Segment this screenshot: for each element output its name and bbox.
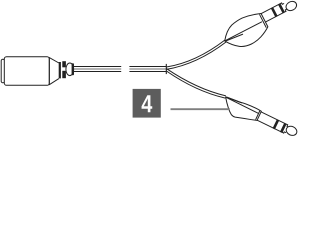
strain relief bead	[66, 63, 74, 76]
top plug boot sliver line	[226, 33, 243, 43]
cable right segment middle line	[129, 68, 166, 70]
cable left segment top line	[74, 66, 121, 68]
strain relief end bar	[72, 63, 74, 75]
bottom plug neck	[284, 125, 289, 134]
bottom plug ring band 2	[280, 123, 286, 132]
bottom branch upper line	[166, 69, 226, 96]
top plug body	[219, 9, 271, 54]
top branch lower line	[166, 42, 226, 70]
top plug end face inner line	[260, 15, 267, 28]
top plug ring band 1	[271, 7, 277, 16]
top plug crease line	[225, 22, 261, 41]
bottom plug ring band 1	[273, 120, 279, 129]
top plug ring band 2	[278, 4, 284, 13]
bottom plug boot sliver line	[226, 96, 241, 104]
female jack body right edge	[48, 57, 50, 85]
bottom plug shaft	[257, 112, 288, 133]
jack taper bottom line	[49, 79, 59, 85]
female jack body	[4, 57, 49, 86]
bottom plug crease line	[226, 97, 258, 113]
cable left segment bottom line	[74, 71, 121, 73]
top plug tip	[284, 0, 298, 12]
bottom plug	[219, 94, 298, 144]
female jack cap ring	[1, 59, 4, 83]
strain relief bar 2 bottom block	[62, 71, 66, 78]
cable right segment bottom line	[129, 71, 166, 73]
top plug	[219, 0, 303, 54]
leader line to label 4	[171, 108, 230, 110]
jack taper top line	[49, 58, 59, 63]
bottom plug tip	[285, 125, 299, 138]
top plug neck	[282, 2, 288, 11]
strain relief bar 1	[59, 62, 61, 78]
bottom plug end face inner line	[256, 111, 260, 120]
top plug shaft	[261, 3, 286, 22]
strain relief bar 2 top block	[62, 61, 66, 67]
label 4 box	[133, 89, 161, 118]
Y-split junction tick	[165, 64, 167, 74]
label 4 numeral	[142, 95, 153, 112]
bottom branch lower line	[166, 71, 225, 98]
cable right segment top line	[129, 66, 166, 68]
cable left segment middle line	[74, 68, 121, 70]
top branch upper line	[166, 40, 224, 67]
bottom plug body	[219, 94, 261, 126]
